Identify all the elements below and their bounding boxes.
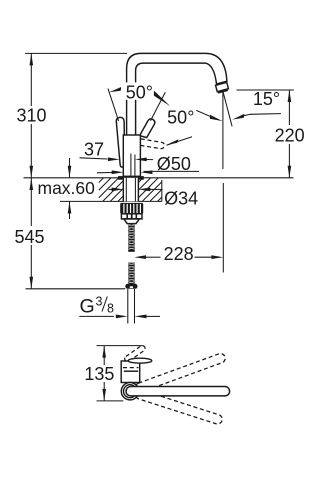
50-deg right arrowhead — [151, 91, 171, 107]
37 left arrow — [108, 157, 120, 161]
thread extension lines — [127, 289, 129, 324]
G3/8 nipple — [125, 284, 137, 289]
Ø34 label — [163, 189, 201, 209]
swivel base outer circle — [121, 383, 138, 400]
faucet body — [123, 135, 140, 176]
left lever handle (solid) — [116, 117, 124, 167]
15-deg leader line — [244, 114, 281, 116]
dashed spout rotated up — [134, 352, 226, 393]
50-deg left arrowhead — [109, 87, 121, 92]
svg-text:310: 310 — [16, 105, 46, 125]
135 bottom extension line — [97, 400, 124, 402]
545 down arrow — [30, 277, 34, 289]
threaded rod upper segment — [128, 224, 135, 252]
swivel base inner circle — [124, 385, 137, 398]
handle lever (top view, solid ellipse) — [128, 358, 152, 363]
max.60 upper arrow — [69, 158, 71, 178]
G3/8 dimension arrows — [79, 315, 114, 317]
countertop hatching — [99, 178, 162, 201]
svg-text:max.60: max.60 — [38, 178, 96, 198]
228 right extension line — [222, 183, 224, 273]
second 50-deg leader line — [196, 110, 212, 117]
15-deg slanted line (line B) — [223, 91, 232, 126]
second 50-deg arrowhead — [210, 115, 223, 121]
svg-text:8: 8 — [107, 302, 114, 316]
135 up arrow — [102, 346, 106, 358]
svg-text:Ø: Ø — [157, 154, 171, 174]
threaded rod lower segment — [128, 263, 135, 286]
svg-text:G: G — [80, 296, 95, 318]
545 bottom extension line — [26, 288, 126, 290]
mounting nut (knurled) — [120, 203, 143, 214]
220 up arrow — [288, 90, 292, 102]
max.60 lower arrow — [69, 202, 71, 220]
inner body line — [130, 154, 132, 176]
arrowhead on dashed lever axis — [167, 139, 179, 145]
Ø50 leader underline — [144, 170, 200, 172]
nut lower collar — [121, 214, 142, 219]
svg-text:15°: 15° — [253, 89, 280, 109]
220 top extension line — [237, 89, 294, 91]
135 top extension line — [97, 345, 144, 347]
310 down arrow — [30, 166, 34, 178]
220 down arrow — [288, 166, 292, 178]
Ø50 left arrow — [97, 172, 112, 174]
top view body — [121, 361, 140, 383]
37 right arrow — [135, 158, 147, 162]
310 up arrow — [30, 53, 34, 65]
228 dimension — [146, 256, 161, 258]
body step line — [124, 370, 138, 372]
svg-text:545: 545 — [14, 227, 44, 247]
base seat plate — [118, 176, 144, 180]
svg-text:228: 228 — [164, 244, 194, 264]
220 dimension line — [288, 90, 290, 178]
countertop bottom line — [60, 200, 162, 202]
dashed handle (rotated, top view) — [124, 345, 147, 363]
G 3/8 label — [80, 295, 115, 318]
solid spout (top view) — [126, 387, 230, 396]
37 leader underline — [80, 158, 108, 159]
top extension line at spout top — [25, 52, 127, 54]
hatch right border — [161, 180, 163, 201]
svg-text:50°: 50° — [167, 107, 194, 127]
135 down arrow — [102, 389, 106, 401]
310/545 dimension line — [30, 53, 32, 106]
left lever axis extension line — [108, 89, 119, 121]
hidden dashed line in body — [123, 367, 139, 369]
Ø34 right arrow — [139, 188, 151, 192]
threaded shank through counter — [123, 178, 138, 202]
svg-text:50°: 50° — [126, 83, 153, 103]
dashed spout rotated down — [134, 389, 223, 426]
545 up arrow — [30, 178, 34, 190]
135 dimension line — [103, 346, 105, 365]
vertical line below spout tip (line A) — [222, 91, 224, 169]
aerator band at spout tip — [216, 82, 229, 91]
svg-text:135: 135 — [84, 364, 114, 384]
dashed lever (rotated position) — [140, 139, 164, 149]
Ø50 right arrow — [141, 170, 153, 174]
first 50-deg label — [125, 82, 154, 102]
svg-text:Ø34: Ø34 — [164, 189, 198, 209]
spout tube outline — [127, 53, 227, 136]
right lever handle (solid) — [140, 119, 155, 138]
220 label — [274, 125, 305, 146]
15-deg arrowhead — [232, 114, 244, 120]
svg-text:220: 220 — [275, 126, 305, 146]
dashed lever axis extension — [167, 137, 193, 146]
right lever axis extension line — [151, 92, 166, 120]
svg-text:3: 3 — [96, 295, 103, 309]
countertop top surface line — [24, 177, 294, 179]
svg-text:37: 37 — [84, 140, 104, 160]
svg-text:50: 50 — [171, 154, 191, 174]
Ø34 left arrow — [109, 188, 114, 190]
spout tip end piece — [218, 89, 228, 94]
tapered washer — [124, 219, 140, 224]
